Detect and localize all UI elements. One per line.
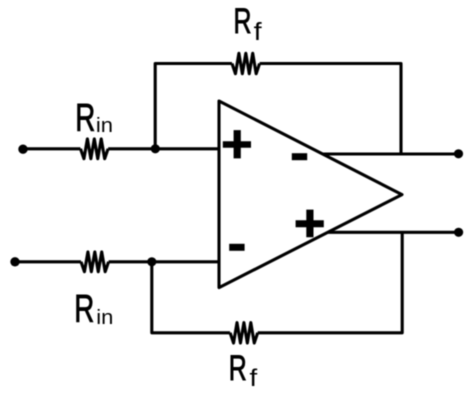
wire: top input terminal to resistor Rin bbox=[23, 147, 81, 150]
op-amp minus sign (top output polarity) bbox=[292, 153, 307, 160]
svg-text:R: R bbox=[74, 287, 94, 331]
svg-text:in: in bbox=[96, 115, 113, 137]
op-amp U1 (fully differential) triangle bbox=[219, 101, 402, 288]
wire: top output (op-amp to terminal) bbox=[323, 152, 459, 155]
resistor R_in (bottom) bbox=[81, 252, 109, 272]
output terminal dot (bottom) bbox=[454, 228, 463, 237]
op-amp minus sign (bottom input polarity) bbox=[229, 244, 244, 251]
op-amp plus sign (top input polarity) bbox=[223, 130, 251, 158]
svg-text:R: R bbox=[229, 350, 247, 388]
wire: top feedback right (Rf across and down to output) bbox=[260, 64, 401, 155]
input terminal dot (top) bbox=[18, 145, 27, 154]
svg-text:R: R bbox=[75, 96, 95, 140]
svg-text:f: f bbox=[254, 18, 263, 46]
wire: bottom feedback left (node down and across to Rf) bbox=[152, 262, 230, 333]
node dot: bottom input / feedback junction bbox=[147, 257, 156, 266]
svg-text:f: f bbox=[250, 365, 259, 391]
wire: bottom input terminal to resistor Rin bbox=[15, 260, 81, 263]
op-amp plus sign (bottom output polarity) bbox=[296, 210, 324, 238]
wire: Rin (bottom) to op-amp noninverting-side input bbox=[109, 260, 219, 263]
resistor R_f (top) bbox=[232, 53, 260, 73]
wire: bottom output (op-amp to terminal) bbox=[328, 231, 459, 234]
svg-text:R: R bbox=[234, 3, 252, 41]
node dot: top input / feedback junction bbox=[151, 144, 160, 153]
wire: bottom feedback right (Rf across and up to output) bbox=[258, 232, 403, 332]
resistor R_in (top) bbox=[81, 139, 109, 159]
wire: top feedback left (node up and across to Rf) bbox=[155, 64, 232, 149]
svg-text:in: in bbox=[96, 307, 113, 329]
wire: Rin (top) to op-amp inverting-side input bbox=[108, 147, 219, 150]
input terminal dot (bottom) bbox=[10, 257, 19, 266]
output terminal dot (top) bbox=[454, 149, 463, 158]
resistor R_f (bottom) bbox=[230, 323, 258, 343]
